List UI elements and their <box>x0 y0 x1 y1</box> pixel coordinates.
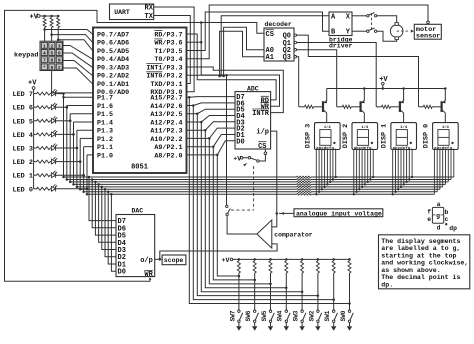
svg-text:Q3: Q3 <box>283 54 291 62</box>
resistor base Q3 <box>382 105 391 108</box>
wire LED 5 feed <box>34 120 37 122</box>
wire DISP 3 segment c <box>321 150 323 190</box>
keypad key 3 <box>56 42 62 48</box>
wire DISP 3 segment f <box>329 150 331 182</box>
legend g dashes <box>433 214 436 216</box>
svg-text:P0.3/AD3: P0.3/AD3 <box>97 64 129 72</box>
keypad key 8 <box>49 57 55 63</box>
wire DISP 2 segment f <box>367 150 369 182</box>
node P1.0 join <box>86 188 89 191</box>
wire P1.3 stub <box>77 129 93 131</box>
resistor LED 6 <box>37 106 50 109</box>
wire DISP 3 segment a <box>315 150 317 195</box>
switch SW5 bottom contact <box>269 320 271 322</box>
wire P2.3 down <box>205 130 286 288</box>
wire P1.0 stub <box>87 154 93 156</box>
wire S1 to +V <box>243 157 248 159</box>
wire DAC D4 feed <box>99 184 116 242</box>
svg-text:A15/P2.7: A15/P2.7 <box>150 95 182 103</box>
+V terminal (keypad) <box>37 15 40 18</box>
wire LED 1 to diode <box>50 174 51 176</box>
wire ADC i/p to analogue node <box>271 131 277 213</box>
switch S1 lever <box>251 158 257 160</box>
wire segment bus line f <box>80 188 296 190</box>
wire P2.0 down <box>217 155 239 276</box>
wire keypad row2 to P0.3 <box>63 53 93 68</box>
switch S1 throw <box>248 157 250 159</box>
node DISP 1 segment e <box>403 183 405 185</box>
wire +V tap <box>382 85 384 89</box>
wire DAC D6 feed <box>92 180 116 228</box>
svg-text:are labelled a to g,: are labelled a to g, <box>381 245 460 252</box>
node DISP 3 segment e <box>326 183 328 185</box>
svg-text:dp.: dp. <box>381 281 393 288</box>
node P2.0 branch <box>216 154 219 157</box>
svg-text:7: 7 <box>43 58 46 64</box>
node DISP 2 segment e <box>364 183 366 185</box>
wire P2.6 down <box>193 106 333 300</box>
svg-text:P1.4: P1.4 <box>97 119 113 127</box>
wire SW0 to ground <box>349 323 351 327</box>
svg-text:starting at the top: starting at the top <box>381 252 456 259</box>
switch S2 top contact <box>226 205 228 207</box>
resistor LED 5 <box>37 119 50 122</box>
node switch 7 tap <box>348 302 351 305</box>
svg-text:decoder: decoder <box>265 21 292 28</box>
svg-text:INT1/P3.3: INT1/P3.3 <box>146 64 182 72</box>
svg-text:A12/P2.4: A12/P2.4 <box>150 119 182 127</box>
LED D5 symbol <box>51 116 57 123</box>
ground SW6 <box>252 326 257 331</box>
node P2.2 branch <box>208 137 211 140</box>
LED D3 symbol <box>51 144 57 151</box>
node DISP 3 segment b <box>318 191 320 193</box>
switch S3 contact a <box>367 15 369 17</box>
wire INT1 to ADC INTR <box>187 67 284 113</box>
wire DISP 3 segment b <box>318 150 320 192</box>
decoder Q2 bubble <box>294 49 296 51</box>
wire DISP 2 segment g <box>369 150 371 180</box>
switch SW7 top contact <box>238 310 240 312</box>
svg-text:SW7: SW7 <box>229 310 236 321</box>
svg-text:D0: D0 <box>118 269 126 277</box>
node P2.6 branch <box>192 104 195 107</box>
svg-text:#: # <box>58 65 61 71</box>
wire SW5 column <box>270 273 272 310</box>
wire Q2 to Q2 drop <box>297 50 337 107</box>
keypad key 2 <box>49 42 55 48</box>
wire DISP 3 segment e <box>326 150 328 185</box>
wire LED 5 to diode <box>50 120 51 122</box>
switch SW3 top contact <box>301 310 303 312</box>
node bus corner 1 <box>66 178 69 181</box>
switch SW2 bottom contact <box>317 320 319 322</box>
svg-text:1/4: 1/4 <box>324 125 332 130</box>
transistor Q4 (DISP 0 driver) <box>442 89 446 123</box>
wire segment bus line d east <box>311 183 446 185</box>
node DISP 1 segment . <box>411 176 413 178</box>
svg-text:SW3: SW3 <box>293 310 300 321</box>
svg-text:WR/P3.6: WR/P3.6 <box>154 40 182 48</box>
motor M1 bottom terminal <box>395 37 398 40</box>
node rail SW5 <box>269 258 272 261</box>
svg-text:8: 8 <box>51 58 54 64</box>
wire segment bus line g <box>84 191 297 193</box>
analogue input voltage box <box>294 209 383 217</box>
svg-text:d: d <box>437 224 441 231</box>
wire resistor to base 0 <box>314 106 322 108</box>
resistor pullup SW2 <box>316 261 319 273</box>
switch SW5 top contact <box>269 310 271 312</box>
resistor base Q2 <box>342 105 351 108</box>
switch SW2 lever <box>319 313 322 320</box>
ground SW1 <box>331 326 336 331</box>
display DISP 1 <box>391 123 417 150</box>
node keypad column 1 tap <box>43 28 46 31</box>
svg-text:The decimal point is: The decimal point is <box>381 274 460 281</box>
wire P2.7 down <box>189 97 349 303</box>
svg-text:P1.0: P1.0 <box>97 152 113 160</box>
node LED 7 junction <box>62 92 65 95</box>
sensor input terminal <box>427 21 430 24</box>
svg-text:LED 5: LED 5 <box>13 118 33 126</box>
wire display +V rail <box>327 88 446 90</box>
node DISP 1 segment a <box>392 193 394 195</box>
svg-text:ADC: ADC <box>247 86 259 93</box>
svg-text:1/4: 1/4 <box>442 125 450 130</box>
node DISP 2 segment g <box>369 178 371 180</box>
ground SW0 <box>347 326 352 331</box>
wire P2.5 down <box>197 114 318 296</box>
node DISP 3 segment . <box>335 176 337 178</box>
node P2.5 branch <box>196 112 199 115</box>
LED D6 symbol <box>51 103 57 110</box>
resistor segment c <box>297 181 311 183</box>
wire LED 1 to bus <box>56 174 84 176</box>
wire resistor to base 3 <box>432 106 440 108</box>
wire DISP 1 segment e <box>403 150 405 185</box>
+V terminal (switches) <box>230 258 233 261</box>
switch SW3 bottom contact <box>301 320 303 322</box>
svg-text:DISP 2: DISP 2 <box>342 124 350 148</box>
wire SW5 to ground <box>270 323 272 327</box>
resistor keypad pullup 2 <box>50 18 53 28</box>
display DISP 2 <box>352 123 378 150</box>
wire DISP 2 segment c <box>358 150 360 190</box>
svg-text:DAC: DAC <box>132 208 144 215</box>
UART box <box>110 4 154 20</box>
ground SW4 <box>284 326 289 331</box>
wire RXD to UART <box>154 7 194 92</box>
svg-text:P1.5: P1.5 <box>97 111 113 119</box>
node LED 6 junction <box>66 106 69 109</box>
LED D7 symbol <box>51 89 57 96</box>
display DISP 3 <box>315 123 341 150</box>
svg-text:SW0: SW0 <box>340 310 347 321</box>
wire DAC output <box>155 258 159 260</box>
wire LED 0 to diode <box>50 188 51 190</box>
wire DISP 1 segment b <box>395 150 397 192</box>
node switch 4 tap <box>301 290 304 293</box>
svg-text:LED 1: LED 1 <box>13 173 33 181</box>
node DAC bus tap 4 <box>101 186 104 189</box>
wire A11/P2.3 to ADC D3 <box>187 122 236 130</box>
svg-text:P0.7/AD7: P0.7/AD7 <box>97 31 129 39</box>
wire LED 6 to diode <box>50 106 51 108</box>
node bus corner 2 <box>69 181 72 184</box>
wire DAC D3 feed <box>102 187 116 250</box>
svg-text:A13/P2.5: A13/P2.5 <box>150 111 182 119</box>
svg-text:a: a <box>437 201 441 208</box>
display DISP 0 <box>433 123 459 150</box>
svg-text:e: e <box>427 216 431 223</box>
svg-text:DISP 1: DISP 1 <box>381 124 389 148</box>
wire DISP 0 segment g <box>450 150 452 180</box>
svg-text:P0.5/AD5: P0.5/AD5 <box>97 48 129 56</box>
wire P1.6 stub <box>67 105 93 107</box>
svg-text:LED 3: LED 3 <box>13 146 33 154</box>
transistor Q3 (DISP 1 driver) <box>400 89 404 123</box>
wire A12/P2.4 to ADC D4 <box>187 116 236 123</box>
wire DISP 0 segment f <box>447 150 449 182</box>
wire LED 1 feed <box>34 174 37 176</box>
svg-text:LED 2: LED 2 <box>13 159 33 167</box>
wire A15/P2.7 to ADC D7 <box>187 96 236 99</box>
svg-text:The display segments: The display segments <box>381 238 460 245</box>
resistor segment d <box>297 184 311 186</box>
wire LED 7 feed <box>34 93 37 95</box>
switch S4 contact b <box>374 30 376 32</box>
keypad key # <box>56 64 62 70</box>
wire LED 6 feed <box>34 106 37 108</box>
switch S2 lever <box>228 209 231 214</box>
display DISP 1 digit outline <box>396 130 407 146</box>
arrow analogue input <box>281 212 284 215</box>
wire Q drop to resistor 1 <box>337 106 343 108</box>
svg-text:T1/P3.5: T1/P3.5 <box>154 48 182 56</box>
transistor Q2 (DISP 2 driver) <box>361 89 365 123</box>
wire P1.2 vertical bus <box>79 138 81 189</box>
svg-text:SW4: SW4 <box>277 310 284 321</box>
wire SW2 to ground <box>317 323 319 327</box>
switch S2 bottom contact <box>226 213 228 215</box>
switch SW0 top contact <box>348 310 350 312</box>
wire comparator plus input <box>272 213 277 227</box>
node rail SW6 <box>253 258 256 261</box>
svg-text:A11/P2.3: A11/P2.3 <box>150 128 182 136</box>
node rail SW7 <box>238 258 241 261</box>
wire bridge X out <box>352 15 367 17</box>
svg-text:sensor: sensor <box>416 33 440 41</box>
svg-text:LED 6: LED 6 <box>13 105 33 113</box>
wire Q drop to resistor 2 <box>376 106 381 108</box>
node rail stage 3 <box>444 87 447 90</box>
node WR pin join <box>200 41 203 44</box>
resistor keypad pullup 3 <box>57 18 60 28</box>
wire DISP 1 segment . <box>411 150 413 178</box>
wire keypad row3 to P0.2 <box>63 61 93 77</box>
svg-text:1/4: 1/4 <box>361 125 369 130</box>
resistor segment e <box>297 186 311 188</box>
svg-text:UART: UART <box>114 9 130 16</box>
node P1.5 join <box>69 120 72 123</box>
node P1.3 join <box>76 147 79 150</box>
node DISP 1 segment c <box>397 188 399 190</box>
keypad key 4 <box>41 50 47 56</box>
switch SW1 top contact <box>333 310 335 312</box>
wire SW4 column <box>285 273 287 310</box>
switch SW0 lever <box>350 313 353 320</box>
wire DAC D2 feed <box>105 189 116 256</box>
node P2.3 branch <box>204 129 207 132</box>
node P1.1 join <box>82 174 85 177</box>
transistor Q1 (DISP 3 driver) <box>323 89 327 123</box>
wire keypad row4 to P0.1 <box>63 68 93 84</box>
node DISP 3 segment c <box>321 188 323 190</box>
svg-text:0: 0 <box>51 65 54 71</box>
switch SW7 lever <box>240 313 243 320</box>
node LED 5 junction <box>69 120 72 123</box>
LED D0 symbol <box>51 184 57 191</box>
display DISP 0 decimal point <box>451 142 453 144</box>
wire DISP 3 segment g <box>332 150 334 180</box>
svg-text:A9/P2.1: A9/P2.1 <box>154 144 182 152</box>
wire SW1 to ground <box>333 323 335 327</box>
wire SW7 to ground <box>238 323 240 327</box>
node DISP 3 segment g <box>332 178 334 180</box>
wire WR pin stub <box>187 41 202 43</box>
svg-text:LED 7: LED 7 <box>13 91 33 99</box>
keypad key 5 <box>49 50 55 56</box>
svg-text:DISP 0: DISP 0 <box>422 124 430 148</box>
wire DAC D5 feed <box>95 182 116 235</box>
switch SW1 lever <box>334 313 337 320</box>
ADC body <box>235 92 271 149</box>
node DISP 2 segment f <box>367 181 369 183</box>
wire SW3 column <box>301 273 303 310</box>
resistor pullup SW4 <box>285 261 288 273</box>
wire LED 2 feed <box>34 161 37 163</box>
switch S4 lever <box>369 28 375 30</box>
wire TXD to UART <box>154 16 191 84</box>
resistor pullup SW7 <box>237 261 240 273</box>
node DISP 1 segment d <box>400 186 402 188</box>
wire DISP 2 segment e <box>364 150 366 185</box>
wire P1.3 vertical bus <box>76 130 78 187</box>
node DAC bus tap 3 <box>97 183 100 186</box>
switch SW5 lever <box>271 313 274 320</box>
display DISP 3 digit outline <box>320 130 331 146</box>
node P2.7 branch <box>188 96 191 99</box>
svg-text:comparator: comparator <box>274 232 313 239</box>
switch SW0 bottom contact <box>348 320 350 322</box>
wire T1 to bridge B <box>187 12 330 51</box>
node P1.4 join <box>72 133 75 136</box>
resistor LED 4 <box>37 133 50 136</box>
wire DAC D1 feed <box>108 192 116 264</box>
wire LED 6 to bus <box>56 106 67 108</box>
svg-text:4: 4 <box>43 50 46 56</box>
svg-text:and working clockwise,: and working clockwise, <box>381 260 468 267</box>
wire SW2 column <box>317 273 319 310</box>
svg-text:A14/P2.6: A14/P2.6 <box>150 103 182 111</box>
node rail SW0 <box>348 258 351 261</box>
svg-text:P0.1/AD1: P0.1/AD1 <box>97 81 129 89</box>
resistor pullup SW5 <box>269 261 272 273</box>
wire P1.7 vertical bus <box>63 94 65 177</box>
node bus corner 6 <box>82 191 85 194</box>
wire DISP 2 segment . <box>372 150 374 178</box>
node switch 3 tap <box>285 287 288 290</box>
wire LED 4 feed <box>34 133 37 135</box>
legend digit outline <box>432 207 443 223</box>
svg-text:c: c <box>444 216 448 223</box>
svg-text:as shown above.: as shown above. <box>381 267 440 274</box>
svg-text:RD/P3.7: RD/P3.7 <box>154 31 182 39</box>
node DISP 1 segment b <box>394 191 396 193</box>
wire LED 7 to diode <box>50 93 51 95</box>
gang dashes vertical <box>253 166 255 210</box>
switch S1 common <box>257 160 259 162</box>
node bus corner 4 <box>76 186 79 189</box>
display DISP 2 decimal point <box>371 142 373 144</box>
node P2.4 branch <box>200 121 203 124</box>
resistor pullup SW1 <box>332 261 335 273</box>
wire Q1 to Q1 drop <box>297 43 377 107</box>
wire RD to ADC <box>187 34 277 100</box>
resistor pullup SW3 <box>301 261 304 273</box>
wire resistor to base 2 <box>391 106 399 108</box>
wire DISP 0 segment c <box>439 150 441 190</box>
wire P1.1 vertical bus <box>83 147 85 192</box>
wire DISP 1 segment g <box>408 150 410 180</box>
switch SW4 lever <box>287 313 290 320</box>
wire DISP 0 segment d <box>442 150 444 187</box>
wire WR to DAC west route <box>5 10 202 281</box>
wire X to motor top <box>377 16 397 22</box>
wire P2.1 down <box>213 147 254 280</box>
wire DAC D0 feed <box>111 194 116 271</box>
wire A14/P2.6 to ADC D6 <box>187 103 236 106</box>
wire Y to motor bottom <box>377 31 397 41</box>
wire P1.4 vertical bus <box>73 122 75 184</box>
switch SW6 bottom contact <box>254 320 256 322</box>
wire Q0 to Q0 drop <box>297 35 419 107</box>
wire LED 7 to bus <box>56 93 64 95</box>
node DISP 1 segment g <box>408 178 410 180</box>
resistor segment a <box>297 176 311 178</box>
switch SW6 top contact <box>254 310 256 312</box>
svg-text:3: 3 <box>58 43 61 49</box>
op 8051 body <box>93 28 187 174</box>
+V terminal (ADC CS) <box>240 157 243 160</box>
node DAC bus tap 0 <box>88 176 91 179</box>
motor shaft link dashes <box>397 30 410 32</box>
wire LED 4 to bus <box>56 133 74 135</box>
node switch 6 tap <box>332 298 335 301</box>
wire DISP 1 segment a <box>392 150 394 195</box>
wire P1.5 vertical bus <box>69 114 71 182</box>
node DISP 2 segment a <box>353 193 355 195</box>
svg-text:P0.6/AD6: P0.6/AD6 <box>97 40 129 48</box>
resistor LED 1 <box>37 174 50 177</box>
scope box <box>162 255 186 265</box>
wire SW0 column <box>349 273 351 310</box>
DAC body <box>116 215 155 277</box>
wire T0 to motor sensor <box>187 5 429 59</box>
wire WR vertical <box>201 23 279 107</box>
wire keypad column 3 drop <box>57 28 59 42</box>
